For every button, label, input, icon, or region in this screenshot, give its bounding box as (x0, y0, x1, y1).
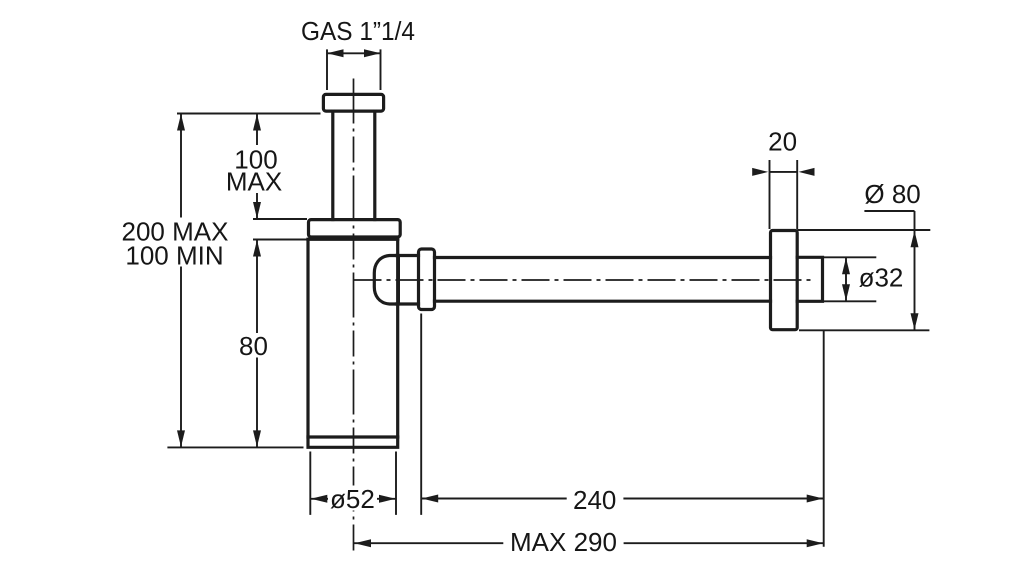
dimension diameter 52 (310, 452, 396, 515)
svg-text:240: 240 (573, 485, 616, 515)
dimension MAX 290 (354, 539, 824, 547)
compression nut (419, 249, 435, 310)
centerline vertical (353, 79, 355, 554)
svg-text:ø52: ø52 (330, 484, 375, 514)
bottle body top edge (308, 238, 398, 241)
top cap nut (323, 94, 383, 111)
wall flange (771, 231, 798, 330)
wall stub pipe (797, 257, 822, 301)
dimension GAS 1"1/4 (327, 49, 381, 90)
outlet dome (374, 256, 398, 305)
svg-text:80: 80 (239, 331, 268, 361)
dimension 240 (421, 314, 824, 547)
dimension 100 MAX (177, 114, 321, 220)
dimension 80 (253, 240, 307, 448)
svg-text:20: 20 (768, 127, 797, 157)
centerline horizontal (354, 279, 815, 281)
horizontal pipe (435, 258, 771, 302)
text halo backgrounds (226, 145, 286, 193)
tailpiece pipe (333, 112, 375, 220)
dimension 200 MAX 100 MIN (167, 114, 303, 448)
outlet connector (397, 256, 419, 305)
svg-text:GAS 1”1/4: GAS 1”1/4 (301, 16, 415, 46)
bottle flange (309, 220, 401, 237)
svg-text:MAX: MAX (226, 167, 282, 197)
dimension 20 (752, 160, 814, 229)
bottle body (308, 239, 398, 447)
dimension diameter 32 (823, 257, 877, 301)
svg-text:MAX 290: MAX 290 (510, 527, 617, 557)
dimension diameter 80 leader (797, 211, 930, 330)
bottle bottom band (308, 435, 398, 438)
svg-text:100 MIN: 100 MIN (125, 240, 223, 270)
svg-text:Ø 80: Ø 80 (864, 179, 920, 209)
svg-text:ø32: ø32 (859, 262, 904, 292)
